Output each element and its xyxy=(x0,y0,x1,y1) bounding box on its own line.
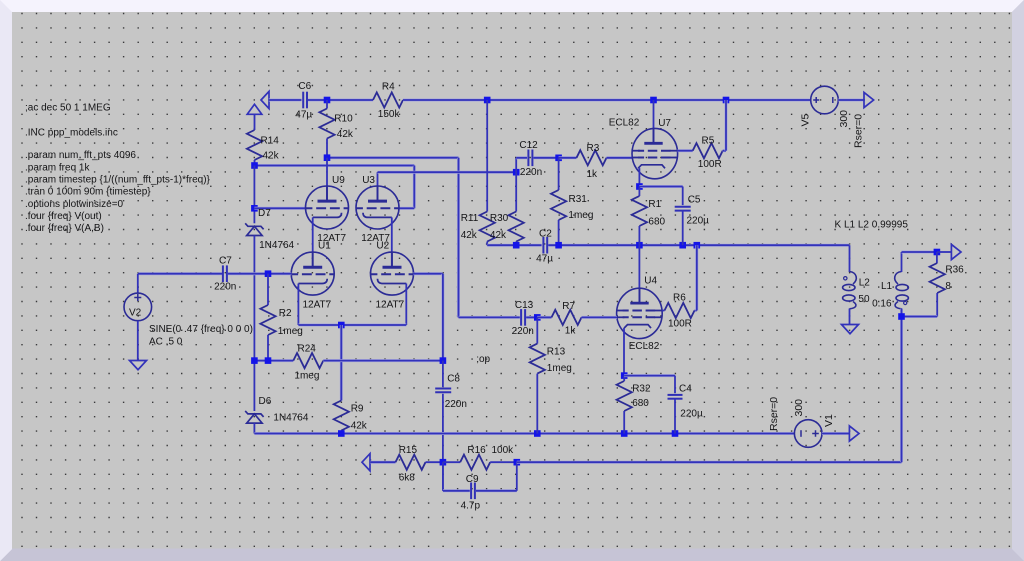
svg-text:U2: U2 xyxy=(376,240,389,251)
junction R2 bottom xyxy=(265,357,272,364)
resistor R31 xyxy=(551,190,566,220)
resistor R32 xyxy=(617,381,632,411)
wire R2 to R24 bus xyxy=(267,335,269,361)
wire to R1 xyxy=(638,187,640,197)
resistor R4 xyxy=(373,92,403,107)
wire bus to U4 plate xyxy=(638,245,640,303)
svg-text:.param num_fft_pts 4096: .param num_fft_pts 4096 xyxy=(25,150,136,161)
svg-text:R11: R11 xyxy=(461,213,479,224)
resistor R24 xyxy=(293,353,323,368)
wire R16 to node xyxy=(490,461,517,463)
svg-text:150k: 150k xyxy=(378,109,401,120)
junction U4 cathode xyxy=(621,372,628,379)
resistor R7 xyxy=(552,310,582,325)
svg-text:47µ: 47µ xyxy=(295,110,312,121)
svg-text:R6: R6 xyxy=(673,293,686,304)
svg-text:R5: R5 xyxy=(702,136,715,147)
svg-text:220n: 220n xyxy=(214,282,236,293)
wire node to R10 xyxy=(326,100,328,109)
svg-text:8: 8 xyxy=(945,281,951,292)
svg-text:AC .5 0: AC .5 0 xyxy=(149,336,183,347)
svg-text:4.7p: 4.7p xyxy=(461,501,481,512)
junction R13/bus xyxy=(534,430,541,437)
voltage source V1 xyxy=(794,420,822,448)
junction R5 top xyxy=(723,97,730,104)
wire U1 cathode down xyxy=(297,284,299,326)
V1 plus mark xyxy=(812,430,819,437)
capacitor C6 xyxy=(303,92,307,109)
resistor R15 xyxy=(396,455,426,470)
wire R30 to bus xyxy=(515,242,517,246)
triode U1 12AT7 xyxy=(291,252,334,295)
svg-text:R15: R15 xyxy=(399,445,418,456)
svg-text:220µ: 220µ xyxy=(687,216,710,227)
wire R15 to node xyxy=(426,461,443,463)
svg-text:C2: C2 xyxy=(539,229,552,240)
svg-text:R2: R2 xyxy=(279,308,292,319)
wire R4 to node xyxy=(403,99,487,102)
wire node to R2 xyxy=(267,274,269,305)
svg-text:12AT7: 12AT7 xyxy=(303,299,332,310)
svg-text:R10: R10 xyxy=(334,114,353,125)
svg-text:C9: C9 xyxy=(466,474,479,485)
inductor L1 secondary xyxy=(895,272,902,285)
svg-text:C8: C8 xyxy=(447,374,460,385)
port arrow right of V1 xyxy=(849,426,859,441)
wire C5 to bus xyxy=(682,210,684,245)
wire to R32 xyxy=(623,376,625,381)
junction D-string/R24 xyxy=(251,357,258,364)
svg-text:R14: R14 xyxy=(261,136,280,147)
port arrow output xyxy=(951,244,961,259)
wire R36 down xyxy=(936,293,938,317)
svg-text:C7: C7 xyxy=(219,255,232,266)
wire to U9 plate xyxy=(326,158,328,201)
wire R24 to node xyxy=(323,359,443,362)
svg-text:SINE(0 .47 {freq} 0 0 0): SINE(0 .47 {freq} 0 0 0) xyxy=(149,324,253,335)
wire D7 to D6 xyxy=(253,236,255,361)
capacitor C8 xyxy=(435,389,451,393)
svg-text:50: 50 xyxy=(858,294,870,305)
wire cathode to C5 xyxy=(639,185,682,188)
voltage source V2 xyxy=(124,293,152,321)
port arrow left of C6 xyxy=(261,91,269,108)
wire C4 to bus xyxy=(674,399,676,434)
svg-text:L1: L1 xyxy=(881,281,893,292)
capacitor C2 xyxy=(543,237,547,254)
junction R4/R11 xyxy=(484,97,491,104)
wire R10 node to right xyxy=(327,156,459,159)
svg-text:R36: R36 xyxy=(945,265,964,276)
svg-text:R30: R30 xyxy=(490,213,509,224)
wire B+ rail xyxy=(487,99,653,102)
svg-text:1meg: 1meg xyxy=(278,326,303,337)
svg-text:.INC ppp_models.inc: .INC ppp_models.inc xyxy=(25,128,118,139)
svg-text:R9: R9 xyxy=(351,403,364,414)
svg-text:R24: R24 xyxy=(298,344,317,355)
wire R11 to bus xyxy=(486,242,488,246)
U9 plate inner stem xyxy=(326,186,328,201)
svg-text:300: 300 xyxy=(838,110,850,128)
svg-text:;ac dec 50 1 1MEG: ;ac dec 50 1 1MEG xyxy=(25,103,111,114)
junction cathodes/R9 xyxy=(338,322,345,329)
svg-text:680: 680 xyxy=(632,398,649,409)
svg-text:1k: 1k xyxy=(565,326,577,337)
wire down to C5 xyxy=(682,187,684,206)
U2 plate bar stem xyxy=(391,253,393,268)
wire node to R30 xyxy=(515,172,517,211)
wire U9 cathode to U1 plate xyxy=(312,217,314,267)
svg-text:R16: R16 xyxy=(467,445,486,456)
svg-text:220µ: 220µ xyxy=(680,409,703,420)
junction R36/output xyxy=(934,249,941,256)
junction R30/bus xyxy=(513,242,520,249)
pentode U7 ECL82 xyxy=(632,128,678,178)
svg-text:12AT7: 12AT7 xyxy=(376,299,405,310)
svg-text:C6: C6 xyxy=(298,81,311,92)
svg-text:42k: 42k xyxy=(263,151,280,162)
svg-text:V1: V1 xyxy=(823,414,835,427)
wire L1 bottom down xyxy=(900,309,903,463)
junction R6 net/bus xyxy=(694,242,701,249)
wire arrow to C6 xyxy=(269,99,302,102)
wire node to R11 xyxy=(486,100,488,212)
svg-text:;op: ;op xyxy=(476,354,490,365)
wire R3 to U7 grid xyxy=(607,156,633,159)
wire arrow to R14 xyxy=(254,114,256,130)
svg-text:1meg: 1meg xyxy=(547,363,572,374)
svg-text:R32: R32 xyxy=(632,383,651,394)
wire rail to V5 xyxy=(726,99,811,102)
wire down long vertical xyxy=(457,158,460,318)
wire R7 to U4 grid xyxy=(582,316,618,319)
resistor R5 xyxy=(693,143,723,158)
ground under V2 xyxy=(130,361,147,370)
wire R6 to corner xyxy=(695,310,697,312)
wire V1 to arrow xyxy=(822,432,849,435)
wire U7 g2 to R5 xyxy=(678,149,693,152)
wire U3 cathode to U2 plate xyxy=(391,217,393,267)
svg-text:1N4764: 1N4764 xyxy=(259,240,294,251)
wire R13 to bus xyxy=(536,374,538,434)
capacitor C12 xyxy=(528,150,532,167)
svg-text:V2: V2 xyxy=(129,308,142,319)
wire U3 plate stem xyxy=(377,172,379,201)
junction R31/bus xyxy=(555,242,562,249)
wire node to R13 xyxy=(536,317,538,343)
wire down to U3 grid xyxy=(413,166,416,209)
L2 phase dot xyxy=(844,277,847,280)
wire R14 to node xyxy=(254,160,256,166)
voltage source V5 xyxy=(811,86,839,114)
wire node to R3 xyxy=(559,156,577,159)
resistor R11 xyxy=(480,212,495,242)
capacitor C13 xyxy=(521,309,525,326)
wire V2 bottom xyxy=(137,321,139,361)
svg-text:K L1 L2 0.99995: K L1 L2 0.99995 xyxy=(835,219,909,230)
wire R31 to bus xyxy=(558,220,560,245)
junction U9 grid xyxy=(251,205,258,212)
wire L2 to ground xyxy=(849,309,851,325)
resistor R3 xyxy=(577,150,607,165)
wire to arrow xyxy=(937,251,952,253)
wire to C13 xyxy=(459,316,520,319)
svg-text:.four {freq} V(A,B): .four {freq} V(A,B) xyxy=(25,223,104,234)
wire to R9 xyxy=(340,325,343,401)
junction R16/C9/feedback xyxy=(514,459,521,466)
wire R10 to node xyxy=(326,139,328,158)
wire C13 to node xyxy=(526,316,537,319)
wire C12 to node xyxy=(533,156,558,159)
svg-text:U1: U1 xyxy=(318,240,331,251)
wire C9 to corner xyxy=(476,489,517,492)
port arrow above R14 xyxy=(247,104,262,114)
wire V5 to arrow xyxy=(838,99,864,102)
wire R36 bottom to L1 xyxy=(902,315,938,318)
svg-text:U3: U3 xyxy=(362,175,375,186)
wire C8 down to C9 xyxy=(442,394,444,491)
svg-text:U9: U9 xyxy=(332,175,345,186)
wire R14 node to U3 grid xyxy=(255,164,415,167)
svg-text:1meg: 1meg xyxy=(568,210,593,221)
svg-text:ECL82: ECL82 xyxy=(609,117,640,128)
wire U2 cathode down xyxy=(405,284,407,326)
resistor R1 xyxy=(632,196,647,226)
wire node to R7 xyxy=(537,316,551,319)
svg-text:300: 300 xyxy=(793,399,805,417)
junction R32/bus xyxy=(621,430,628,437)
svg-text:R13: R13 xyxy=(547,347,566,358)
svg-text:R7: R7 xyxy=(562,301,575,312)
svg-text:C12: C12 xyxy=(519,140,538,151)
wire ground bus xyxy=(254,432,794,435)
port arrow left of R15 xyxy=(362,454,370,471)
svg-text:1k: 1k xyxy=(587,169,599,180)
svg-text:D6: D6 xyxy=(259,396,272,407)
wire bus right xyxy=(548,244,849,247)
capacitor C7 xyxy=(223,265,227,282)
svg-text:42k: 42k xyxy=(490,230,507,241)
junction C6/R4/R10 xyxy=(324,97,331,104)
svg-text:.param timestep {1/((num_fft_p: .param timestep {1/((num_fft_pts-1)*freq… xyxy=(25,174,211,185)
svg-text:.four {freq} V(out): .four {freq} V(out) xyxy=(25,211,102,222)
svg-text:100k: 100k xyxy=(492,445,515,456)
resistor R13 xyxy=(530,344,545,374)
svg-text:1meg: 1meg xyxy=(294,370,319,381)
zener diode D7 1N4764 xyxy=(245,223,263,235)
svg-text:680: 680 xyxy=(648,216,665,227)
junction C13/R7/R13 xyxy=(534,314,541,321)
port arrow right of V5 xyxy=(864,92,874,107)
resistor R2 xyxy=(260,305,275,335)
triode U2 12AT7 xyxy=(371,252,414,295)
wire rail to U7 plate xyxy=(653,100,655,143)
ground under L2 xyxy=(842,325,859,334)
junction R10/U9 plate xyxy=(324,154,331,161)
zener diode D6 1N4764 xyxy=(245,411,263,423)
wire node to R4 xyxy=(327,99,373,102)
svg-text:220n: 220n xyxy=(445,399,467,410)
resistor R10 xyxy=(319,109,334,139)
wire U3 plate to C12 node xyxy=(378,171,517,174)
wire to C9 xyxy=(443,489,470,492)
svg-text:.param freq 1k: .param freq 1k xyxy=(25,162,90,173)
svg-text:220n: 220n xyxy=(512,326,534,337)
svg-text:ECL82: ECL82 xyxy=(629,341,660,352)
wire to R24 xyxy=(254,359,293,362)
svg-text:C13: C13 xyxy=(515,300,534,311)
U3 plate inner stem xyxy=(377,186,379,201)
wire R32 to bus xyxy=(623,411,625,434)
wire to U9 grid xyxy=(254,207,305,210)
wire U7 cathode down xyxy=(638,168,640,186)
wire feedback to output xyxy=(517,461,902,464)
wire arrow to R15 xyxy=(370,461,395,464)
junction R1/U4 plate xyxy=(636,242,643,249)
svg-text:D7: D7 xyxy=(258,208,271,219)
L1 phase dot xyxy=(904,301,907,304)
wire U2 grid right xyxy=(413,272,443,275)
svg-text:1N4764: 1N4764 xyxy=(273,413,308,424)
V2 plus mark xyxy=(134,294,141,301)
svg-text:Rser=0: Rser=0 xyxy=(768,397,780,431)
wire cathode to C4 xyxy=(624,374,675,377)
wire node to R31 xyxy=(558,158,560,190)
svg-text:42k: 42k xyxy=(337,129,354,140)
junction U7 plate xyxy=(650,97,657,104)
wire node to C8 xyxy=(442,361,444,387)
wire R6 up to bus xyxy=(695,245,698,310)
V5 minus mark xyxy=(832,97,834,103)
wire R5 up to rail xyxy=(725,100,728,151)
wire node up to C12 xyxy=(515,158,517,172)
capacitor C9 xyxy=(471,483,475,500)
wire D6 to bus xyxy=(253,423,255,433)
junction C12/R3/R31 xyxy=(555,155,562,162)
svg-text:.options plotwinsize=0: .options plotwinsize=0 xyxy=(25,199,124,210)
svg-text:6k8: 6k8 xyxy=(399,472,416,483)
svg-text:U7: U7 xyxy=(658,118,671,129)
junction R14/D7 xyxy=(251,162,258,169)
junction C12/R30 xyxy=(513,169,520,176)
resistor R16 xyxy=(460,455,490,470)
svg-text:R4: R4 xyxy=(382,82,395,93)
V5 plus mark xyxy=(813,97,819,103)
wire R9 to bus xyxy=(340,431,342,434)
wire rail to R5 node xyxy=(654,99,727,102)
wire node to R36 xyxy=(936,252,938,263)
wire L1 to R36 top xyxy=(902,251,937,254)
junction C7/R2/U1 grid xyxy=(265,270,272,277)
svg-text:V5: V5 xyxy=(800,113,812,126)
svg-text:42k: 42k xyxy=(351,421,368,432)
svg-text:R31: R31 xyxy=(569,194,588,205)
U1 plate bar stem xyxy=(312,253,314,268)
triode U9 12AT7 xyxy=(306,186,349,229)
svg-text:47µ: 47µ xyxy=(536,254,553,265)
svg-text:100R: 100R xyxy=(668,319,692,330)
junction R15/R16/C8 net xyxy=(440,459,447,466)
triode U3 12AT7 xyxy=(356,186,399,229)
V1 minus mark xyxy=(800,430,802,437)
capacitor C5 xyxy=(675,207,691,211)
wire U4 cathode down xyxy=(623,328,625,376)
svg-text:C5: C5 xyxy=(688,194,701,205)
svg-text:R3: R3 xyxy=(587,143,600,154)
wire bus down to L2 xyxy=(849,245,851,272)
svg-text:U4: U4 xyxy=(644,276,657,287)
wire node to D7 xyxy=(253,166,255,224)
wire R1 to bus xyxy=(638,226,640,245)
svg-text:.tran 0 100m 90m {timestep}: .tran 0 100m 90m {timestep} xyxy=(25,186,151,197)
resistor R30 xyxy=(509,212,524,242)
wire node to R16 xyxy=(443,461,460,463)
wire bus left xyxy=(487,244,541,247)
junction R24/U2 net xyxy=(440,357,447,364)
wire into U3 grid xyxy=(399,207,414,210)
svg-text:C4: C4 xyxy=(679,383,692,394)
svg-text:R1: R1 xyxy=(648,199,661,210)
wire cathode bus xyxy=(298,324,406,327)
junction U7 cathode xyxy=(636,183,643,190)
junction C4/bus xyxy=(672,430,679,437)
pentode U4 ECL82 xyxy=(617,288,663,338)
svg-text:0.16: 0.16 xyxy=(872,298,892,309)
wire down to C4 xyxy=(674,376,676,394)
wire L1 top xyxy=(901,252,903,272)
svg-text:220n: 220n xyxy=(520,167,542,178)
svg-text:L2: L2 xyxy=(859,278,871,289)
svg-text:100R: 100R xyxy=(698,159,722,170)
capacitor C4 xyxy=(668,395,683,399)
resistor R36 xyxy=(930,263,945,293)
inductor L2 primary xyxy=(850,272,857,285)
svg-text:Rser=0: Rser=0 xyxy=(853,114,865,148)
wire R5 to corner xyxy=(723,149,726,152)
junction C5/bus xyxy=(679,242,686,249)
wire V2 to C7 xyxy=(138,272,222,275)
wire U4 g2 to R6 xyxy=(662,310,664,312)
junction R9/bus xyxy=(338,430,345,437)
wire C6 to node xyxy=(308,99,327,102)
wire to D6 xyxy=(253,361,255,411)
wire up to node xyxy=(516,462,518,491)
junction L1/R36 xyxy=(898,313,905,320)
wire to C12 xyxy=(516,156,527,159)
resistor R9 xyxy=(334,401,349,431)
wire down to R24 node xyxy=(441,274,444,361)
wire C7 to U1 grid xyxy=(228,272,291,275)
resistor R14 xyxy=(247,130,262,160)
resistor R6 xyxy=(665,303,695,318)
wire down to C9 xyxy=(442,462,444,491)
svg-text:42k: 42k xyxy=(461,230,478,241)
wire V2 top xyxy=(137,274,139,293)
